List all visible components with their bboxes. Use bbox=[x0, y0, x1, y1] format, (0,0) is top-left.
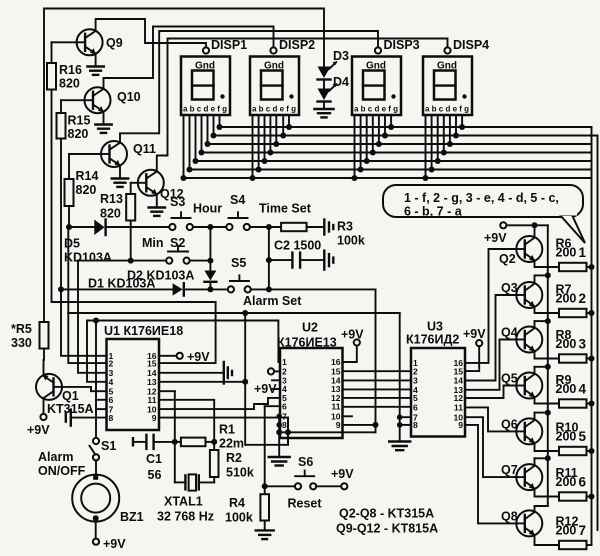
ground at U1 pin 8 bbox=[66, 410, 107, 426]
ground under D4 bbox=[315, 102, 334, 118]
junction DISP1.f bbox=[211, 133, 217, 139]
svg-text:a b c d e f g .: a b c d e f g . bbox=[425, 105, 473, 114]
switch S5 Alarm Set bbox=[228, 256, 302, 308]
svg-text:6: 6 bbox=[282, 401, 287, 411]
junction DISP2.a bbox=[250, 175, 256, 181]
junction R14/D5 bbox=[66, 224, 72, 230]
wire Q9 collector to DISP1 pin bbox=[96, 19, 206, 47]
svg-text:8: 8 bbox=[109, 413, 114, 423]
svg-text:+9V: +9V bbox=[463, 327, 486, 341]
transistor Q5 bbox=[501, 372, 542, 399]
wire D5 to S3 bbox=[106, 226, 170, 228]
segment bus line 5 bbox=[196, 160, 592, 162]
svg-text:9: 9 bbox=[336, 420, 341, 430]
svg-text:8: 8 bbox=[282, 420, 287, 430]
terminal +9V at S6 bbox=[331, 467, 354, 489]
ground under Q9 bbox=[87, 54, 103, 75]
svg-text:9: 9 bbox=[458, 420, 463, 430]
ground at U1 pin 14 bbox=[159, 362, 232, 384]
svg-text:S6: S6 bbox=[298, 455, 313, 469]
wire 320.5 line (pin4 / S1 / U2 pin1 net) bbox=[87, 318, 280, 363]
junction R9 on right bus vertical bbox=[589, 401, 595, 407]
svg-text:1: 1 bbox=[579, 245, 587, 260]
resistor R16 bbox=[47, 42, 82, 302]
buzzer BZ1 bbox=[72, 475, 143, 524]
svg-text:DISP2: DISP2 bbox=[279, 38, 315, 52]
wire U1 pin 10 to U2 pin 5 bbox=[159, 398, 280, 409]
segment bus line 7 bbox=[184, 177, 592, 179]
junction DISP4.b bbox=[429, 167, 435, 173]
junction DISP3.c bbox=[364, 158, 370, 164]
svg-text:200: 200 bbox=[556, 292, 577, 306]
wire DISP1 pin e to bus line 3 bbox=[207, 115, 209, 144]
svg-text:D3: D3 bbox=[333, 49, 349, 63]
wire S6 to +9V bbox=[316, 485, 341, 487]
svg-text:R3: R3 bbox=[337, 220, 353, 234]
svg-text:200: 200 bbox=[556, 430, 577, 444]
wire U2.13 to U3.4 bbox=[343, 388, 412, 390]
wire U2 pin 7/8 ground column bbox=[276, 414, 282, 458]
svg-text:D1 KD103A: D1 KD103A bbox=[88, 277, 155, 291]
transistor Q12 bbox=[138, 170, 184, 201]
wire D3 to D4 bbox=[323, 80, 325, 89]
IC U2 K176IE13 bbox=[277, 321, 343, 439]
label Alarm ON/OFF bbox=[38, 450, 86, 478]
wire DISP1 pin b to bus line 6 bbox=[189, 115, 191, 170]
wire S2 row left bbox=[78, 260, 166, 262]
wire Q8 emitter to R12 bbox=[535, 535, 560, 545]
svg-text:Q2: Q2 bbox=[499, 252, 516, 266]
wire D1 to S5 bbox=[184, 288, 228, 290]
wire U2 pin 9 stub bbox=[343, 424, 376, 426]
wire S5 to U2 pin 9 riser bbox=[251, 288, 376, 290]
wire DISP1 pin g to bus line 1 bbox=[219, 115, 221, 127]
svg-text:Q4: Q4 bbox=[501, 326, 518, 340]
wire DISP1 pin f to bus line 2 bbox=[213, 115, 215, 136]
resistor R5 330 bbox=[11, 322, 49, 350]
wire S2 to D2 column bbox=[190, 260, 211, 262]
svg-text:2: 2 bbox=[109, 358, 114, 368]
resistor R4 100k bbox=[225, 494, 269, 530]
wire DISP2 pin b to bus line 6 bbox=[258, 115, 260, 170]
junction R8 on right bus vertical bbox=[589, 356, 595, 362]
junction DISP1.a bbox=[181, 175, 187, 181]
junction D2 on alarm row bbox=[207, 286, 213, 292]
svg-text:Alarm Set: Alarm Set bbox=[243, 294, 302, 308]
wire Q6 collector bbox=[535, 410, 551, 421]
wire U1 pin 11 to R1 right bbox=[159, 400, 214, 442]
wire DISP4 pin a to bus line 7 bbox=[425, 115, 427, 178]
wire Q1 base to U1 pin 5 bbox=[62, 387, 107, 391]
svg-text:DISP1: DISP1 bbox=[211, 38, 247, 52]
svg-text:3: 3 bbox=[579, 337, 587, 352]
svg-text:U1 К176ИЕ18: U1 К176ИЕ18 bbox=[104, 324, 183, 338]
transistor Q9 bbox=[77, 29, 123, 55]
junction pin12 column / oscillator row bbox=[172, 439, 178, 445]
svg-text:2: 2 bbox=[579, 291, 587, 306]
wire U2 pin9 line (432.3) bbox=[279, 431, 375, 433]
junction DISP4.e bbox=[447, 141, 453, 147]
wire DISP1 pin d to bus line 4 bbox=[201, 115, 203, 153]
svg-text:+9V: +9V bbox=[187, 350, 210, 364]
wire DISP3 pin g to bus line 1 bbox=[390, 115, 392, 127]
svg-text:11: 11 bbox=[454, 403, 463, 413]
capacitor C1 56 bbox=[133, 435, 175, 482]
svg-text:R16: R16 bbox=[59, 63, 82, 77]
svg-text:R14: R14 bbox=[76, 169, 99, 183]
segment bus line 3 bbox=[208, 143, 592, 145]
junction DISP2.e bbox=[273, 141, 279, 147]
segment bus line 2 bbox=[214, 135, 598, 137]
resistor R2 510k bbox=[210, 442, 254, 483]
wire C2 column bbox=[268, 227, 270, 289]
ground below U2 bbox=[269, 457, 290, 466]
wire DISP4 pin f to bus line 2 bbox=[455, 115, 457, 136]
callout bubble segment map bbox=[383, 185, 585, 243]
svg-text:200: 200 bbox=[556, 246, 577, 260]
bus right vertical 2 bbox=[597, 136, 599, 531]
svg-text:200: 200 bbox=[556, 337, 577, 351]
wire DISP2 pin c to bus line 5 bbox=[264, 115, 266, 161]
svg-text:15: 15 bbox=[147, 358, 157, 368]
IC U1 K176IE18 bbox=[104, 324, 183, 430]
svg-text:Q3: Q3 bbox=[501, 281, 518, 295]
junction DISP2.g bbox=[286, 124, 292, 130]
svg-text:a b c d e f g .: a b c d e f g . bbox=[354, 105, 402, 114]
junction D2 column / S2 row bbox=[207, 258, 213, 264]
transistor Q6 bbox=[501, 417, 542, 444]
IC U3 K176ID2 bbox=[406, 320, 465, 437]
diode D5 KD103A bbox=[64, 220, 112, 265]
junction 432.3/pin9 riser bbox=[285, 429, 291, 435]
junction gnd column on 432.3 bbox=[276, 429, 282, 435]
resistor R8 200 (3) bbox=[556, 328, 592, 363]
svg-text:32 768 Hz: 32 768 Hz bbox=[157, 510, 214, 524]
wire alarm row riser to U2 pin 9 bbox=[375, 289, 377, 432]
junction DISP4.g bbox=[459, 124, 465, 130]
junction DISP3.g bbox=[388, 124, 394, 130]
junction U2 pin 9 bbox=[373, 422, 379, 428]
svg-text:820: 820 bbox=[68, 127, 89, 141]
wire U1 pin 12 to oscillator bbox=[159, 390, 175, 392]
wire U1 pin 1 feed bbox=[61, 291, 107, 356]
wire U1 pin 7 stub bbox=[96, 408, 107, 410]
resistor R9 200 (4) bbox=[556, 373, 592, 408]
bus right vertical 1 bbox=[591, 127, 593, 545]
svg-text:DISP3: DISP3 bbox=[384, 38, 420, 52]
terminal +9V below BZ1 bbox=[93, 537, 126, 551]
wire U2.15 to U3.2 bbox=[343, 370, 412, 372]
wire U3.11 to Q6 base bbox=[465, 407, 516, 431]
resistor R7 200 (2) bbox=[556, 283, 592, 318]
transistor Q7 bbox=[501, 463, 542, 490]
junction DISP1.b bbox=[187, 167, 193, 173]
transistor Q8 bbox=[501, 509, 542, 536]
wire U2 pin 4 stub bbox=[272, 388, 280, 390]
svg-text:C1: C1 bbox=[146, 452, 162, 466]
svg-text:Q5: Q5 bbox=[501, 372, 518, 386]
display DISP2 bbox=[250, 38, 315, 115]
terminal +9V at U2 pin 16 bbox=[341, 328, 364, 363]
svg-text:+9V: +9V bbox=[484, 231, 507, 245]
wire DISP4 pin e to bus line 3 bbox=[449, 115, 451, 144]
wire Q4 emitter to R8 bbox=[535, 351, 560, 359]
wire DISP3 pin d to bus line 4 bbox=[372, 115, 374, 153]
svg-text:a b c d e f g .: a b c d e f g . bbox=[183, 105, 231, 114]
svg-text:200: 200 bbox=[556, 524, 577, 538]
wire DISP4 pin c to bus line 5 bbox=[437, 115, 439, 161]
crystal XTAL1 32768Hz bbox=[157, 442, 214, 524]
svg-text:KD103A: KD103A bbox=[64, 251, 112, 265]
segment bus line 1 bbox=[220, 126, 592, 128]
svg-text:820: 820 bbox=[59, 77, 80, 91]
wire Q3 collector bbox=[535, 272, 551, 284]
svg-text:К176ИД2: К176ИД2 bbox=[406, 333, 459, 347]
wire U3.9 to Q8 base bbox=[465, 425, 516, 524]
wire DISP2 pin a to bus line 7 bbox=[252, 115, 254, 178]
junction row1/D2 column bbox=[207, 224, 213, 230]
wire Q11 collector to DISP3 pin bbox=[120, 31, 378, 142]
junction row1/C2 column bbox=[266, 224, 272, 230]
LED D4 bbox=[318, 75, 350, 102]
wire S3 to S4 bbox=[193, 226, 226, 228]
junction alarm row left bbox=[58, 286, 64, 292]
svg-text:Q9-Q12 - KT815A: Q9-Q12 - KT815A bbox=[336, 522, 438, 536]
junction DISP3.a bbox=[352, 175, 358, 181]
wire reset line (444.8) bbox=[245, 418, 288, 445]
junction C2 column / alarm row bbox=[266, 286, 272, 292]
svg-text:Q9: Q9 bbox=[106, 36, 123, 50]
svg-text:R15: R15 bbox=[68, 114, 91, 128]
resistor R6 200 (1) bbox=[556, 237, 592, 272]
display DISP1 bbox=[181, 38, 247, 115]
svg-text:ON/OFF: ON/OFF bbox=[38, 464, 86, 478]
segment bus line 6 bbox=[190, 169, 592, 171]
wire Q7 emitter to R11 bbox=[535, 489, 560, 497]
wire DISP1 pin c to bus line 5 bbox=[195, 115, 197, 161]
ground under Q12 bbox=[149, 195, 165, 216]
junction DISP2.b bbox=[256, 167, 262, 173]
resistor R11 200 (6) bbox=[556, 466, 592, 501]
segment bus line 4 bbox=[202, 152, 592, 154]
svg-text:Min: Min bbox=[142, 236, 164, 250]
wire S4 to R3 bbox=[250, 226, 281, 228]
svg-text:56: 56 bbox=[148, 468, 162, 482]
svg-text:S4: S4 bbox=[230, 193, 245, 207]
display DISP3 bbox=[352, 38, 420, 115]
wire DISP2 pin f to bus line 2 bbox=[282, 115, 284, 136]
junction DISP3.d bbox=[370, 150, 376, 156]
resistor R1 22m bbox=[175, 423, 244, 451]
svg-text:820: 820 bbox=[76, 183, 97, 197]
svg-text:22m: 22m bbox=[219, 437, 244, 451]
wire line to U1 pin 15 (from Q9 column) bbox=[52, 302, 216, 363]
svg-text:U2: U2 bbox=[302, 321, 318, 335]
resistor R10 200 (5) bbox=[556, 421, 592, 456]
resistor R12 200 (7) bbox=[556, 515, 592, 550]
wire Q6 emitter to R10 bbox=[535, 443, 560, 451]
ground right of C2 bbox=[324, 251, 333, 270]
wire U3.12 to Q5 base bbox=[465, 386, 516, 399]
wire DISP1 pin a to bus line 7 bbox=[183, 115, 185, 178]
svg-text:C2 1500: C2 1500 bbox=[274, 239, 321, 253]
svg-text:6 - b, 7 - a: 6 - b, 7 - a bbox=[404, 205, 463, 219]
wire U2 pin 6 to R4/S6 bbox=[262, 406, 280, 494]
svg-text:a b c d e f g .: a b c d e f g . bbox=[252, 105, 300, 114]
terminal +9V at U2 pin 2 bbox=[254, 368, 280, 396]
wire D2 column bbox=[209, 227, 211, 271]
transistor Q1 KT315A bbox=[36, 374, 94, 416]
junction DISP1.c bbox=[193, 158, 199, 164]
svg-text:Q8: Q8 bbox=[501, 509, 518, 523]
resistor R3 100k bbox=[281, 220, 365, 248]
svg-text:S3: S3 bbox=[170, 195, 185, 209]
svg-text:U3: U3 bbox=[427, 320, 443, 334]
svg-text:6: 6 bbox=[413, 403, 418, 413]
svg-text:200: 200 bbox=[556, 475, 577, 489]
switch S2 Min bbox=[142, 236, 190, 264]
svg-text:Q1: Q1 bbox=[62, 389, 79, 403]
terminal +9V below Q1 bbox=[27, 414, 50, 437]
junction DISP3.b bbox=[358, 167, 364, 173]
wire U1 pin 2 feed bbox=[68, 227, 106, 363]
resistor R14 bbox=[65, 154, 102, 227]
wire Q12 collector to DISP4 pin bbox=[157, 39, 448, 171]
svg-text:BZ1: BZ1 bbox=[120, 510, 144, 524]
svg-text:+9V: +9V bbox=[27, 423, 50, 437]
transistor Q2 bbox=[499, 236, 542, 266]
wire U1 pin 13 riser to reset line bbox=[159, 310, 248, 445]
wire DISP3 pin c to bus line 5 bbox=[366, 115, 368, 161]
svg-text:330: 330 bbox=[11, 336, 32, 350]
wire Q5 collector bbox=[535, 364, 551, 375]
junction R10 on right bus vertical bbox=[589, 448, 595, 454]
ground under Q11 bbox=[112, 166, 128, 187]
wire Q5 emitter to R9 bbox=[535, 397, 560, 404]
wire DISP3 pin b to bus line 6 bbox=[360, 115, 362, 170]
wire U3.14 to Q3 base bbox=[465, 295, 516, 381]
wire U1 pin 4 feed bbox=[87, 321, 107, 382]
svg-text:Q2-Q8 - KT315A: Q2-Q8 - KT315A bbox=[339, 507, 434, 521]
svg-text:Reset: Reset bbox=[288, 497, 323, 511]
junction R6 on right bus vertical bbox=[589, 264, 595, 270]
switch S3 Hour bbox=[169, 195, 222, 230]
LED D3 bbox=[318, 49, 350, 80]
wire U3.13 to Q4 base bbox=[465, 340, 516, 390]
junction C2 row bbox=[266, 257, 272, 263]
junction DISP4.a bbox=[423, 175, 429, 181]
svg-text:+9V: +9V bbox=[103, 537, 126, 551]
terminal +9V right column top bbox=[484, 222, 507, 245]
svg-text:Q10: Q10 bbox=[117, 90, 141, 104]
transistor Q11 bbox=[101, 141, 156, 167]
svg-text:D5: D5 bbox=[64, 237, 80, 251]
terminal bar left of C1 bbox=[132, 438, 134, 445]
wire U2.12 to U3.5 bbox=[343, 397, 412, 399]
svg-text:DISP4: DISP4 bbox=[453, 38, 489, 52]
svg-text:S1: S1 bbox=[101, 439, 116, 453]
junction DISP3.f bbox=[382, 133, 388, 139]
junction DISP2.c bbox=[262, 158, 268, 164]
svg-text:Alarm: Alarm bbox=[38, 450, 73, 464]
wire top line A from left rail to D3 column bbox=[44, 9, 324, 323]
ground under Q10 bbox=[95, 112, 111, 133]
svg-text:S5: S5 bbox=[231, 256, 246, 270]
diode D2 KD103A bbox=[127, 269, 216, 290]
diode D1 KD103A bbox=[88, 277, 184, 296]
wire DISP2 pin e to bus line 3 bbox=[275, 115, 277, 144]
wire DISP3 pin e to bus line 3 bbox=[378, 115, 380, 144]
svg-text:*R5: *R5 bbox=[11, 322, 32, 336]
svg-text:R2: R2 bbox=[226, 451, 242, 465]
svg-text:XTAL1: XTAL1 bbox=[164, 495, 203, 509]
svg-text:6: 6 bbox=[579, 475, 587, 490]
svg-text:1 - f, 2 - g, 3 - e, 4 - d, 5: 1 - f, 2 - g, 3 - e, 4 - d, 5 - c, bbox=[404, 191, 559, 205]
wire U3 pin7/8 ground column bbox=[397, 313, 411, 442]
svg-text:+9V: +9V bbox=[341, 328, 364, 342]
wire R5 to Q1 bbox=[43, 349, 45, 361]
svg-text:9: 9 bbox=[152, 413, 157, 423]
svg-text:820: 820 bbox=[100, 207, 121, 221]
wire Q7 collector bbox=[535, 455, 551, 466]
transistor Q10 bbox=[85, 87, 141, 113]
svg-text:S2: S2 bbox=[170, 236, 185, 250]
svg-text:К176ИЕ13: К176ИЕ13 bbox=[277, 336, 337, 350]
ground below R4 bbox=[256, 530, 274, 539]
svg-text:510k: 510k bbox=[226, 466, 254, 480]
svg-text:R1: R1 bbox=[219, 423, 235, 437]
wire Q2 emitter to R6 bbox=[535, 261, 560, 268]
wire DISP3 pin a to bus line 7 bbox=[354, 115, 356, 178]
wire alarm set row (row 3) bbox=[61, 288, 173, 290]
wire S2 riser from row1 to U1 pin 3 bbox=[78, 261, 107, 373]
switch S4 Time Set bbox=[226, 193, 311, 230]
capacitor C2 1500 bbox=[269, 239, 323, 268]
ground below U3 bbox=[389, 442, 410, 451]
svg-text:Q7: Q7 bbox=[501, 463, 518, 477]
svg-text:Hour: Hour bbox=[193, 202, 222, 216]
svg-text:R4: R4 bbox=[229, 496, 245, 510]
svg-text:D4: D4 bbox=[333, 75, 349, 89]
resistor R13 bbox=[100, 183, 138, 264]
junction DISP1.e bbox=[205, 141, 211, 147]
svg-text:Time Set: Time Set bbox=[259, 202, 312, 216]
wire Q3 emitter to R7 bbox=[535, 307, 560, 314]
wire 313 line (pin2 / pin13 / U3 gnd net) bbox=[68, 312, 399, 314]
wire U2.11 to U3.6 bbox=[343, 406, 412, 408]
svg-text:R13: R13 bbox=[100, 192, 123, 206]
wire U2 pin 3 stub bbox=[272, 379, 280, 381]
switch S6 Reset bbox=[265, 455, 323, 511]
wire DISP3 pin f to bus line 2 bbox=[384, 115, 386, 136]
svg-text:100k: 100k bbox=[225, 511, 253, 525]
wire U1 pin 16 to +9V bbox=[159, 350, 210, 364]
svg-text:8: 8 bbox=[413, 420, 418, 430]
wire DISP4 pin b to bus line 6 bbox=[431, 115, 433, 170]
svg-text:Q6: Q6 bbox=[501, 417, 518, 431]
wire Q2 collector bbox=[534, 225, 536, 238]
wire Q10 collector to DISP2 pin bbox=[104, 27, 274, 88]
svg-text:4: 4 bbox=[579, 382, 587, 397]
svg-text:11: 11 bbox=[331, 401, 340, 411]
svg-text:Q11: Q11 bbox=[133, 142, 156, 156]
junction R7 on right bus vertical bbox=[589, 310, 595, 316]
transistor Q3 bbox=[501, 281, 542, 308]
wire U2.14 to U3.3 bbox=[343, 379, 412, 381]
wire BZ1 to +9V bbox=[95, 521, 97, 539]
svg-text:200: 200 bbox=[556, 382, 577, 396]
wire U1 pin 9 to reset line riser bbox=[159, 418, 288, 445]
